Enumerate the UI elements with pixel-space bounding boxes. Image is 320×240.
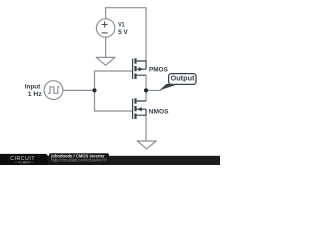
- label Input 1 Hz: [25, 84, 42, 98]
- transistor NMOS M2: [133, 98, 146, 119]
- transistor PMOS M1: [133, 58, 146, 79]
- wire output node to flag: [146, 89, 161, 91]
- watermark text box: [49, 153, 109, 165]
- svg-text:5 V: 5 V: [118, 29, 128, 36]
- wire NMOS source to ground: [145, 115, 147, 141]
- label V1 value: [118, 22, 128, 36]
- wire PMOS drain to output node to NMOS drain: [145, 75, 147, 101]
- voltage source V1: [96, 19, 114, 37]
- watermark bar: [0, 156, 220, 165]
- svg-text:Input: Input: [25, 84, 41, 91]
- watermark logo box: [0, 154, 48, 168]
- output flag tail: [159, 84, 178, 90]
- wire input to gate junction: [63, 89, 95, 91]
- ground (below NMOS): [137, 141, 156, 149]
- svg-text:—≡LAB≡—: —≡LAB≡—: [15, 160, 35, 164]
- svg-text:PMOS: PMOS: [149, 67, 168, 74]
- ground (below V1): [96, 57, 115, 65]
- svg-text:1 Hz: 1 Hz: [28, 91, 42, 98]
- svg-text:Output: Output: [171, 76, 196, 83]
- svg-text:V1: V1: [118, 22, 125, 29]
- wire V1 bottom stub to ground: [105, 37, 107, 57]
- svg-text:htlp:∕/circuitlab.com/c6xs4vx7: htlp:∕/circuitlab.com/c6xs4vx78: [51, 158, 107, 163]
- node junction input gate bus: [92, 88, 96, 92]
- wire gate bus: [95, 71, 133, 111]
- output flag box: [169, 74, 196, 85]
- svg-text:NMOS: NMOS: [149, 109, 169, 116]
- node junction output: [144, 88, 148, 92]
- wire top rail V1 to PMOS source: [106, 8, 146, 61]
- input source (square wave generator): [44, 81, 63, 100]
